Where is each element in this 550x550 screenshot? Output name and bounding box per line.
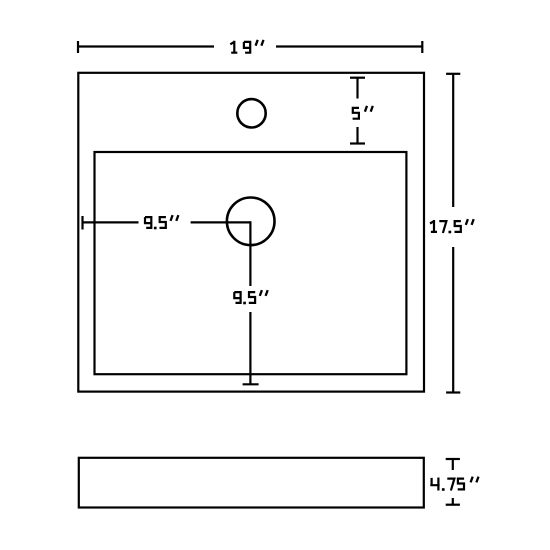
19in dimension line (top)	[77, 41, 79, 53]
4.75in dimension line (slab height)	[446, 458, 460, 460]
label 17.5"	[430, 219, 474, 233]
label 4.75"	[430, 477, 478, 491]
17.5in dimension line (right)	[446, 73, 460, 75]
label 19"	[230, 40, 263, 53]
label 5"	[353, 106, 373, 119]
5in dimension line (faucet offset)	[350, 77, 365, 79]
sink inner basin rectangle	[95, 152, 407, 374]
9.5in vertical dimension (drain y offset)	[249, 221, 251, 286]
sink outer rim rectangle (top view)	[78, 73, 424, 392]
label 9.5" horizontal	[145, 215, 178, 229]
9.5in horizontal dimension (drain x offset)	[81, 216, 83, 230]
drain hole circle	[227, 198, 275, 246]
faucet hole circle	[237, 99, 265, 127]
side view slab rectangle (bottom)	[79, 458, 424, 508]
label 9.5" vertical	[234, 290, 267, 304]
